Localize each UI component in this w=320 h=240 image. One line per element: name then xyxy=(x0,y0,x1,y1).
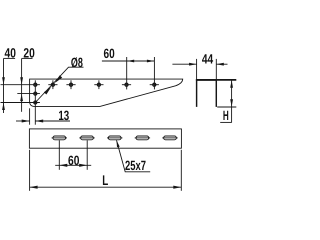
dimension line L xyxy=(30,186,182,188)
arrow 60bot left xyxy=(59,164,67,167)
arrow dia8 lower xyxy=(44,87,51,95)
slot 4 xyxy=(136,136,149,140)
arrow 44 left xyxy=(189,63,197,66)
hole circle r1 xyxy=(34,83,37,86)
slot 2 xyxy=(81,136,94,140)
U-channel profile xyxy=(197,80,217,107)
bracket side-view outline xyxy=(30,79,183,106)
dimension line 44 xyxy=(172,63,196,65)
extension line middle hole xyxy=(17,93,40,95)
arrow 60bot right xyxy=(79,164,87,167)
hole5 horizontal tick xyxy=(122,84,131,86)
arrow H down xyxy=(230,99,233,107)
channel top extension xyxy=(196,79,236,81)
arrow 13 right xyxy=(35,119,43,122)
arrow H up xyxy=(230,80,233,88)
dimension line 20 xyxy=(21,59,23,112)
bottom bar outline xyxy=(29,129,181,148)
extension line channel left xyxy=(196,59,198,79)
hole2 vertical tick xyxy=(52,80,54,89)
svg-text:Ø8: Ø8 xyxy=(71,55,83,70)
extension line bar right xyxy=(180,150,182,191)
hole4 horizontal tick xyxy=(94,84,103,86)
arrow 20 down xyxy=(20,77,23,85)
extension line hole5 xyxy=(126,57,128,89)
extension line channel bottom xyxy=(217,106,236,108)
extension line bar left xyxy=(29,150,31,191)
extension line slot1 xyxy=(58,140,60,170)
svg-text:L: L xyxy=(102,172,108,188)
diagonal hole leader xyxy=(35,67,83,102)
svg-text:20: 20 xyxy=(23,45,34,60)
hole circle r2 xyxy=(34,92,37,95)
arrow dia8 upper xyxy=(55,75,62,83)
svg-text:40: 40 xyxy=(5,45,16,60)
arrow 40 down xyxy=(2,77,5,85)
dimension line 13 xyxy=(16,120,30,122)
hole circle t2 xyxy=(51,83,54,86)
hole circle t5 xyxy=(125,83,128,86)
hole circle t4 xyxy=(97,83,100,86)
extension line left edge down xyxy=(29,108,31,124)
dimension line 60 bottom xyxy=(55,164,91,166)
slot 5 xyxy=(164,136,177,140)
hole2 horizontal tick xyxy=(48,84,57,86)
hole column centerline xyxy=(34,80,36,124)
leader 25x7 xyxy=(117,140,151,172)
svg-text:13: 13 xyxy=(58,108,69,123)
hole circle r3 xyxy=(34,101,37,104)
svg-text:60: 60 xyxy=(68,153,79,168)
dimension line 40 xyxy=(3,59,5,114)
extension line bottom hole xyxy=(1,102,40,104)
hole6 horizontal tick xyxy=(150,84,159,86)
extension line channel right xyxy=(215,59,217,79)
extension line hole6 xyxy=(153,57,155,89)
slot 1 xyxy=(53,136,66,140)
arrow 60top right xyxy=(147,60,155,63)
arrow L right xyxy=(173,186,181,189)
hole4 vertical tick xyxy=(98,80,100,89)
H label underline xyxy=(220,121,232,123)
label 40 shoulder xyxy=(4,57,16,59)
label 20 shoulder xyxy=(22,57,33,59)
extension line slot2 xyxy=(86,140,88,170)
slot 3 xyxy=(108,136,121,140)
svg-text:44: 44 xyxy=(202,52,214,67)
dimension line H xyxy=(231,80,233,122)
svg-text:H: H xyxy=(223,108,229,123)
svg-text:60: 60 xyxy=(104,46,115,61)
svg-text:25x7: 25x7 xyxy=(125,158,146,173)
arrow 44 right xyxy=(216,63,224,66)
hole3 horizontal tick xyxy=(66,84,75,86)
dimension line 60 top xyxy=(102,60,155,62)
arrow 60top left xyxy=(127,60,135,63)
arrow 13 left xyxy=(22,119,30,122)
hole circle t3 xyxy=(70,83,73,86)
hole3 vertical tick xyxy=(70,80,72,89)
arrow leader 25x7 xyxy=(117,140,120,147)
arrow L left xyxy=(30,186,38,189)
arrow 40 up xyxy=(2,103,5,111)
hole circle t6 xyxy=(153,83,156,86)
arrow 20 up xyxy=(20,94,23,102)
extension line top hole row xyxy=(1,84,40,86)
